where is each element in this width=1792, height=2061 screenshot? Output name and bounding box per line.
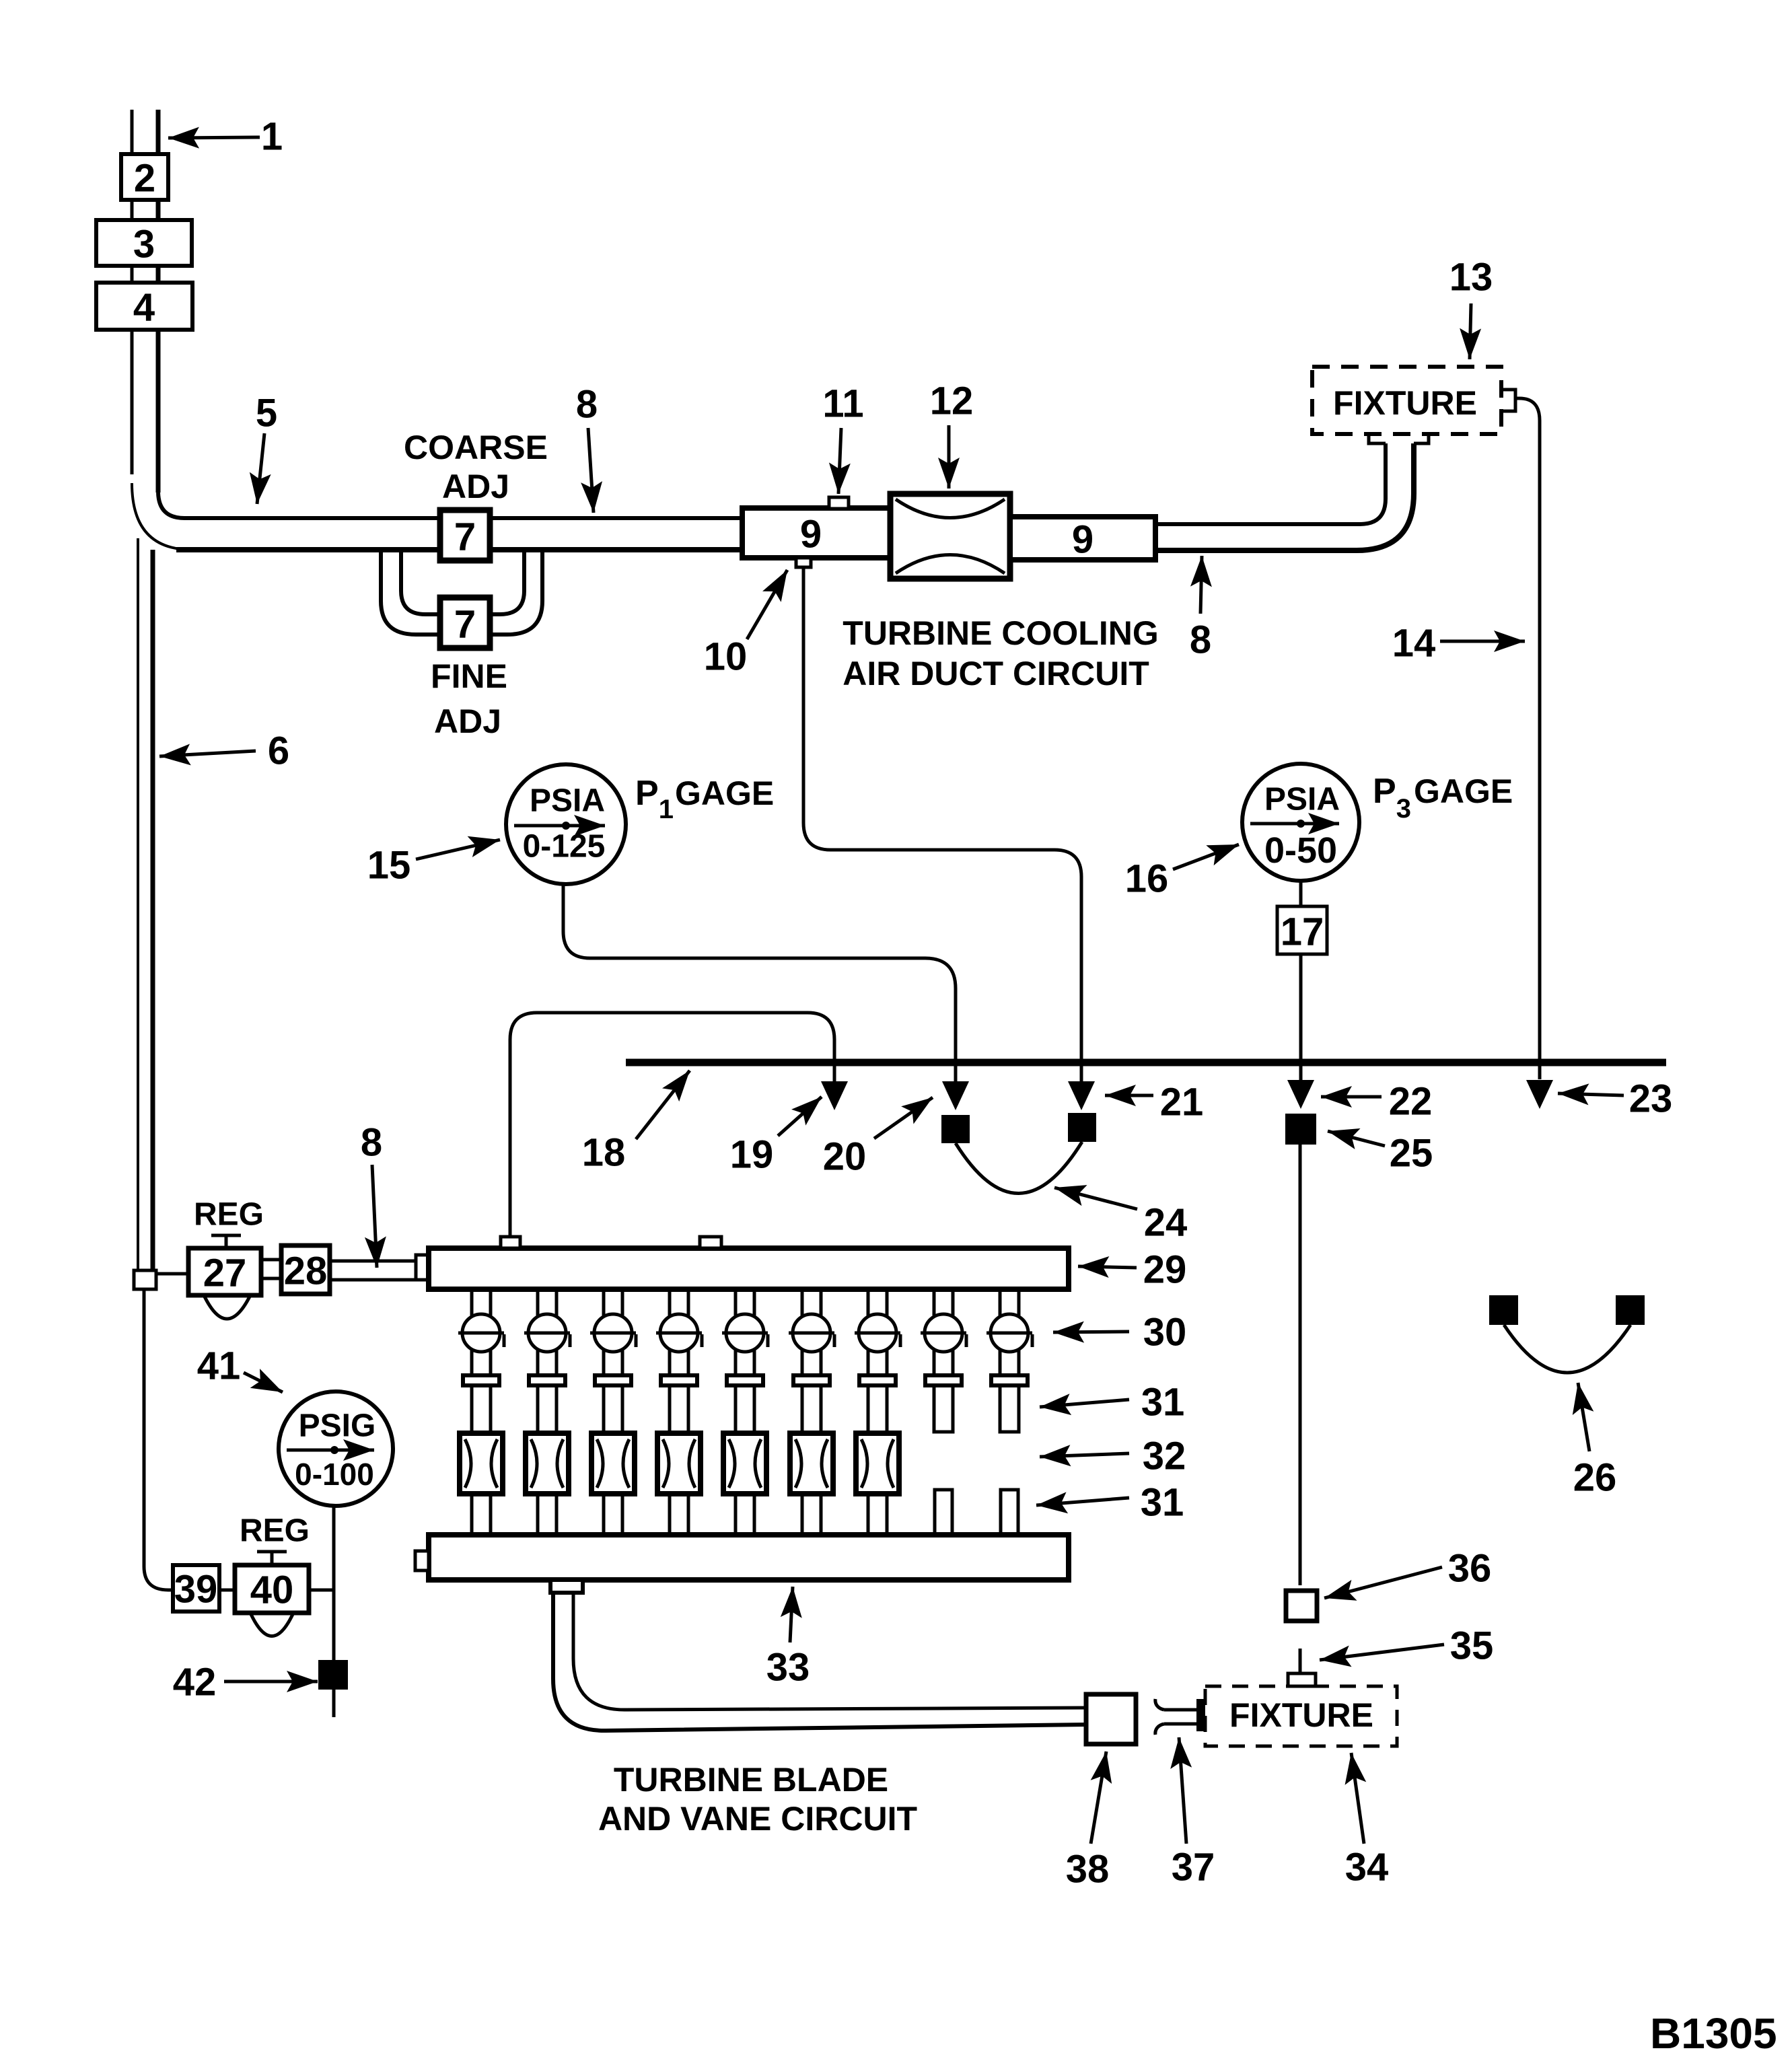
label 15: [367, 840, 500, 888]
valve column 6: drop tube from manifold 29: [789, 1289, 834, 1535]
valve column 8: drop tube from manifold 29: [921, 1289, 966, 1535]
svg-text:6: 6: [268, 729, 289, 773]
svg-text:FINE: FINE: [431, 657, 507, 695]
label 26: [1573, 1383, 1617, 1500]
svg-text:9: 9: [800, 513, 822, 556]
wire: link 40 to gauge line: [309, 1589, 334, 1592]
svg-text:40: 40: [250, 1568, 294, 1612]
svg-text:42: 42: [173, 1661, 217, 1704]
svg-text:39: 39: [174, 1568, 218, 1612]
port 11: tap stub on top of duct: [829, 497, 849, 509]
svg-text:3: 3: [133, 223, 155, 266]
wire: P3 gauge line down to restrictor 17: [1299, 881, 1303, 906]
node: arrowhead 19 onto manifold line: [821, 1081, 848, 1110]
port 35: stub on top of fixture 34: [1288, 1649, 1316, 1686]
label 31 (upper): [1040, 1381, 1184, 1424]
wire: bypass loop tube (around coarse valve into fine valve): [381, 550, 542, 635]
label TURBINE BLADE AND VANE CIRCUIT: [598, 1761, 917, 1838]
svg-text:19: 19: [730, 1133, 774, 1177]
port: fixture 34 inlet block: [1196, 1699, 1207, 1731]
wire: P3 line continues down to square 25 then to fitting 36: [1299, 1145, 1302, 1585]
svg-text:AND VANE CIRCUIT: AND VANE CIRCUIT: [598, 1800, 917, 1838]
svg-text:25: 25: [1390, 1132, 1433, 1176]
component 12: venturi flow section: [890, 494, 1010, 579]
port: manifold 33 left stub: [415, 1551, 429, 1570]
wire: pipe from duct to fixture 13 (up elbow): [1155, 443, 1414, 550]
svg-text:13: 13: [1449, 256, 1493, 299]
valve column 5: drop tube from manifold 29: [722, 1289, 768, 1535]
wire: tube between 27 and 28: [262, 1260, 281, 1278]
svg-text:29: 29: [1143, 1248, 1187, 1292]
port: fixture 13 inlet flange: [1369, 433, 1429, 443]
port 21: quick-disconnect (filled square): [1068, 1113, 1096, 1142]
svg-text:2: 2: [134, 157, 155, 201]
port 10: tap stub under duct: [796, 558, 811, 567]
component 2: inlet fitting box: [121, 154, 168, 201]
valve column 4: drop tube from manifold 29: [656, 1289, 702, 1535]
wire: line from restrictor 17 through manifold line (arrow 22): [1299, 954, 1303, 1081]
port 20: quick-disconnect (filled square): [941, 1115, 970, 1143]
svg-text:12: 12: [930, 379, 974, 423]
label 8 (pipe callout, right of venturi): [1190, 556, 1211, 662]
svg-text:10: 10: [704, 635, 748, 679]
wire 8: tube from 28 to manifold 29: [330, 1261, 417, 1280]
component 38: coupling block: [1086, 1694, 1136, 1744]
label 11: [822, 382, 863, 495]
svg-text:ADJ: ADJ: [434, 702, 501, 740]
label 8 (lower, at manifold inlet): [361, 1121, 382, 1268]
label 38: [1066, 1751, 1110, 1891]
svg-text:35: 35: [1450, 1624, 1494, 1668]
label 37: [1172, 1737, 1215, 1889]
gauge 15: P1 gauge PSIA 0-125: [506, 764, 626, 884]
regulator 40: [235, 1552, 309, 1636]
valve column 2: drop tube from manifold 29: [524, 1289, 570, 1535]
component 17: restrictor box: [1277, 906, 1327, 954]
label 23: [1558, 1077, 1672, 1121]
label FINE ADJ: [431, 657, 507, 740]
svg-text:17: 17: [1281, 910, 1324, 954]
svg-text:34: 34: [1345, 1846, 1389, 1889]
svg-text:31: 31: [1141, 1381, 1185, 1424]
svg-text:7: 7: [454, 515, 476, 559]
port: manifold 29 top stub 2: [700, 1237, 721, 1248]
wire: inlet pipe 1 (vertical, top left): [132, 110, 158, 493]
svg-text:8: 8: [1190, 618, 1211, 662]
label 33: [766, 1587, 810, 1690]
component 9: duct section (left): [742, 508, 890, 558]
fixture 34 (dashed box): [1205, 1686, 1397, 1746]
wire: link from pipe 6 to regulator 27: [156, 1272, 188, 1276]
wire: vertical pipe 6 (down left side): [138, 538, 153, 1270]
svg-text:33: 33: [766, 1646, 810, 1690]
svg-text:TURBINE COOLING: TURBINE COOLING: [843, 614, 1158, 652]
svg-text:TURBINE BLADE: TURBINE BLADE: [614, 1761, 888, 1799]
svg-text:23: 23: [1629, 1077, 1673, 1121]
component 36: union fitting (open square): [1286, 1591, 1317, 1621]
svg-text:AIR DUCT CIRCUIT: AIR DUCT CIRCUIT: [843, 655, 1149, 692]
svg-text:PSIG: PSIG: [299, 1408, 376, 1444]
svg-text:FIXTURE: FIXTURE: [1229, 1696, 1373, 1734]
label 22: [1321, 1080, 1432, 1124]
wire 18: test stand manifold line (thick): [626, 1059, 1666, 1066]
svg-text:9: 9: [1072, 518, 1094, 562]
svg-text:0-125: 0-125: [523, 829, 606, 865]
svg-text:26: 26: [1573, 1456, 1617, 1500]
svg-text:4: 4: [133, 286, 155, 330]
svg-text:PSIA: PSIA: [530, 783, 605, 819]
valve column 9: drop tube from manifold 29: [987, 1289, 1032, 1535]
port: pipe 6 end cap: [134, 1270, 156, 1289]
manifold 29 (upper manifold): [429, 1248, 1069, 1289]
svg-text:REG: REG: [240, 1513, 310, 1549]
port 25: quick-disconnect (filled square): [1285, 1114, 1316, 1145]
label 18: [582, 1071, 690, 1175]
label 42: [173, 1661, 318, 1704]
svg-text:32: 32: [1143, 1435, 1186, 1478]
label TURBINE COOLING AIR DUCT CIRCUIT: [843, 614, 1158, 692]
label 8 (pipe callout, upper): [576, 383, 598, 513]
component 39: fitting box: [173, 1565, 219, 1612]
component 28: fitting box: [281, 1245, 330, 1294]
component 9: duct section (right): [1010, 517, 1155, 562]
wire: P1 gauge sense line to manifold line (arrow 20): [563, 884, 956, 1082]
port 42: quick-disconnect (filled square): [318, 1660, 348, 1690]
svg-text:31: 31: [1141, 1481, 1184, 1525]
node: arrowhead 23 (end of line 14): [1526, 1080, 1553, 1109]
nozzle 37: flared tube into fixture 34: [1155, 1699, 1196, 1735]
label 16: [1125, 844, 1239, 901]
label 31 (lower): [1036, 1481, 1184, 1525]
svg-text:22: 22: [1389, 1080, 1433, 1124]
label 41: [197, 1344, 283, 1393]
label 36: [1324, 1547, 1491, 1599]
gauge 16: P3 gauge PSIA 0-50: [1242, 764, 1359, 881]
node: flow direction tap 1 (arrow): [168, 115, 283, 159]
wire: elbow from inlet pipe to horizontal pipe 5: [132, 483, 192, 550]
svg-text:21: 21: [1160, 1081, 1204, 1124]
wire 14: sense line from fixture 13 down to manifold line: [1515, 398, 1540, 1079]
label 14: [1392, 622, 1525, 665]
svg-text:24: 24: [1144, 1201, 1188, 1245]
wire: horizontal supply pipe 5/8 (left section): [176, 518, 742, 550]
label 32: [1040, 1435, 1186, 1478]
label 29: [1078, 1248, 1186, 1292]
svg-text:41: 41: [197, 1344, 241, 1388]
svg-text:8: 8: [576, 383, 598, 427]
port: manifold 33 outlet stub: [550, 1580, 583, 1593]
port: fixture 13 side tap connector: [1501, 390, 1515, 411]
svg-text:ADJ: ADJ: [442, 468, 509, 505]
wire: pipe from manifold 33 to coupling 38: [553, 1593, 1086, 1731]
label 34: [1345, 1753, 1389, 1889]
svg-text:PSIA: PSIA: [1264, 782, 1340, 818]
svg-text:11: 11: [822, 382, 863, 426]
wire: link 39 to 40: [219, 1589, 235, 1592]
wire: tap 10 sense line to manifold line (arrow 21): [803, 567, 1081, 1082]
label 19: [730, 1097, 822, 1177]
svg-text:0-100: 0-100: [295, 1457, 374, 1492]
port: manifold 29 top stub (line 19 tap): [501, 1237, 520, 1248]
component 4: filter box: [96, 283, 192, 330]
label 20: [823, 1097, 933, 1179]
svg-text:8: 8: [361, 1121, 382, 1165]
label COARSE ADJ: [404, 429, 548, 505]
node: arrowhead 21 onto manifold line: [1068, 1081, 1095, 1110]
port 26: pair of quick-disconnects (filled squares) with jumper hose: [1489, 1295, 1645, 1373]
label 24: [1054, 1188, 1187, 1245]
svg-text:1: 1: [261, 115, 283, 159]
svg-text:20: 20: [823, 1135, 867, 1179]
svg-text:27: 27: [203, 1252, 247, 1295]
label 12: [930, 379, 974, 489]
wire: pipe 6 branch down to regulator 39/40: [144, 1289, 173, 1590]
valve 7: coarse adjust: [440, 510, 490, 561]
node: arrowhead 20 onto manifold line: [942, 1081, 969, 1110]
wire: PSIG gauge line down to port 42: [332, 1506, 336, 1660]
svg-text:COARSE: COARSE: [404, 429, 548, 466]
label 13: [1449, 256, 1493, 360]
wire 24: jumper hose between ports 20 and 21: [956, 1142, 1082, 1194]
valve column 1: drop tube from manifold 29: [458, 1289, 504, 1535]
svg-text:30: 30: [1143, 1311, 1187, 1354]
label 6: [159, 729, 289, 773]
fixture 13 (dashed box): [1312, 367, 1501, 434]
label 35: [1320, 1624, 1493, 1668]
wire: stub below port 42: [332, 1690, 336, 1717]
gauge 41: PSIG gauge 0-100: [279, 1391, 393, 1506]
svg-text:FIXTURE: FIXTURE: [1333, 384, 1477, 422]
node: arrowhead 22 onto manifold line: [1287, 1080, 1314, 1109]
valve column 7: drop tube from manifold 29: [855, 1289, 900, 1535]
component 3: filter box: [96, 220, 192, 266]
label 25: [1328, 1131, 1433, 1176]
port: manifold 29 inlet stub: [416, 1255, 429, 1280]
svg-text:REG: REG: [194, 1197, 264, 1233]
svg-text:36: 36: [1448, 1547, 1492, 1591]
svg-text:38: 38: [1066, 1848, 1110, 1891]
regulator 27: [188, 1235, 261, 1319]
label 30: [1053, 1311, 1186, 1354]
wire: line from manifold 29 stub up and over to manifold line (arrow 19): [510, 1013, 834, 1238]
svg-text:15: 15: [367, 844, 411, 888]
svg-text:B1305: B1305: [1650, 2009, 1777, 2058]
svg-text:5: 5: [256, 392, 277, 435]
valve column 3: drop tube from manifold 29: [590, 1289, 636, 1535]
label 10: [704, 570, 787, 679]
svg-text:0-50: 0-50: [1264, 830, 1337, 871]
svg-text:14: 14: [1392, 622, 1436, 665]
valve 7: fine adjust: [440, 598, 490, 648]
svg-text:37: 37: [1172, 1846, 1215, 1889]
label 21: [1105, 1081, 1203, 1124]
svg-text:28: 28: [284, 1250, 328, 1293]
svg-text:18: 18: [582, 1131, 626, 1175]
label 5 (pipe callout): [256, 392, 277, 505]
manifold 33 (lower manifold): [429, 1535, 1069, 1580]
svg-text:7: 7: [454, 603, 476, 647]
svg-text:16: 16: [1125, 857, 1169, 901]
